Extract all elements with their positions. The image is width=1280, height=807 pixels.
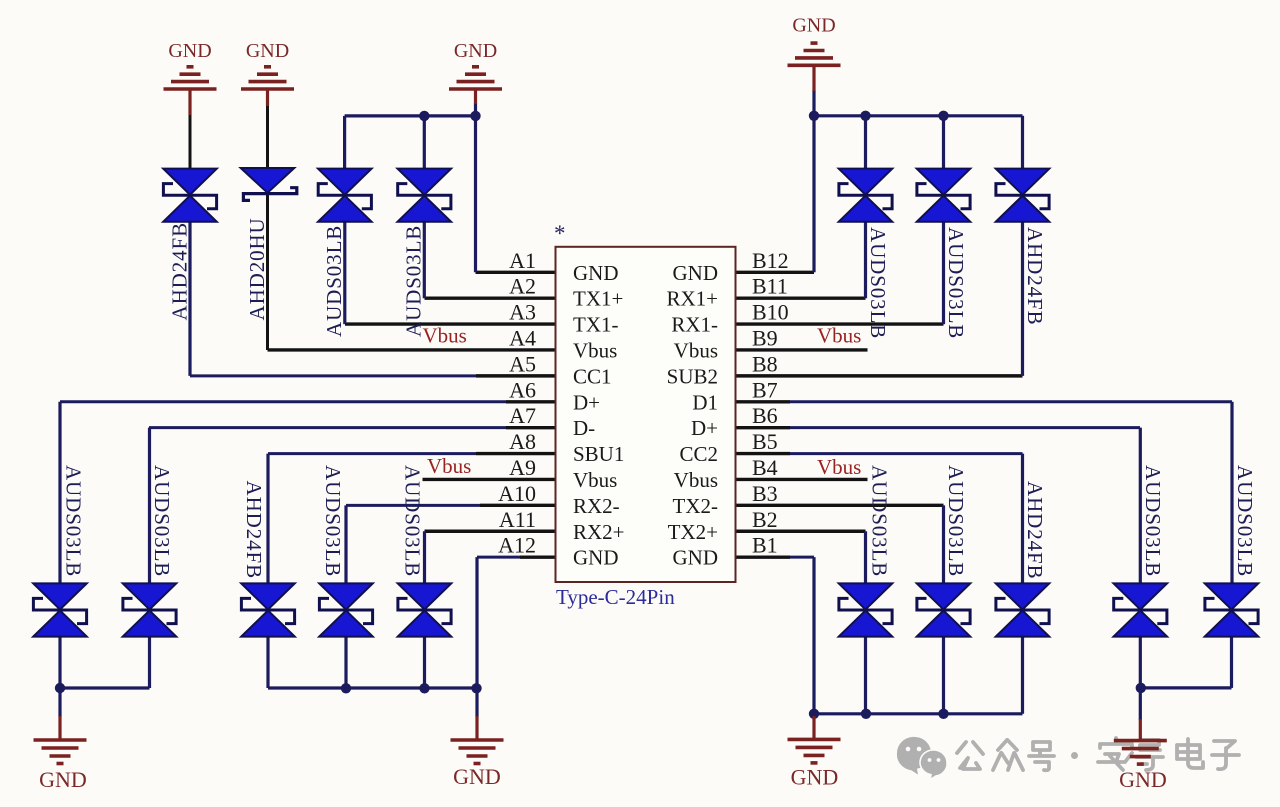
svg-text:B11: B11 bbox=[752, 274, 788, 299]
svg-text:AHD24FB: AHD24FB bbox=[242, 481, 266, 579]
svg-text:GND: GND bbox=[792, 15, 835, 37]
svg-text:A5: A5 bbox=[509, 351, 536, 376]
svg-text:RX1-: RX1- bbox=[671, 313, 718, 337]
svg-text:TX1+: TX1+ bbox=[573, 287, 623, 311]
svg-text:B10: B10 bbox=[752, 300, 789, 325]
svg-text:AUDS03LB: AUDS03LB bbox=[1233, 465, 1257, 577]
svg-text:A11: A11 bbox=[499, 507, 536, 532]
svg-text:AHD24FB: AHD24FB bbox=[1023, 481, 1047, 579]
svg-text:A3: A3 bbox=[509, 300, 536, 325]
svg-text:B6: B6 bbox=[752, 403, 778, 428]
svg-text:Vbus: Vbus bbox=[817, 455, 861, 479]
svg-text:TX2+: TX2+ bbox=[668, 520, 718, 544]
svg-text:AUDS03LB: AUDS03LB bbox=[61, 465, 85, 577]
svg-text:B4: B4 bbox=[752, 455, 778, 480]
svg-text:GND: GND bbox=[454, 40, 497, 62]
svg-text:AHD24FB: AHD24FB bbox=[168, 222, 192, 320]
svg-text:GND: GND bbox=[673, 261, 719, 285]
svg-text:AHD24FB: AHD24FB bbox=[1023, 227, 1047, 325]
svg-text:RX2-: RX2- bbox=[573, 494, 620, 518]
svg-text:AUDS03LB: AUDS03LB bbox=[322, 225, 346, 337]
svg-text:GND: GND bbox=[39, 767, 87, 792]
svg-text:D-: D- bbox=[573, 416, 595, 440]
svg-text:A10: A10 bbox=[498, 481, 536, 506]
svg-text:AUDS03LB: AUDS03LB bbox=[321, 465, 345, 577]
svg-text:A1: A1 bbox=[509, 248, 536, 273]
svg-text:A9: A9 bbox=[509, 455, 536, 480]
svg-text:GND: GND bbox=[168, 40, 211, 62]
svg-text:Vbus: Vbus bbox=[674, 338, 718, 362]
svg-text:AUDS03LB: AUDS03LB bbox=[868, 465, 892, 577]
svg-text:CC2: CC2 bbox=[679, 442, 718, 466]
svg-text:B7: B7 bbox=[752, 377, 778, 402]
svg-text:Vbus: Vbus bbox=[573, 468, 617, 492]
svg-text:GND: GND bbox=[246, 40, 289, 62]
svg-text:B12: B12 bbox=[752, 248, 789, 273]
svg-text:GND: GND bbox=[1119, 767, 1167, 792]
svg-text:AUDS03LB: AUDS03LB bbox=[944, 465, 968, 577]
svg-text:D+: D+ bbox=[691, 416, 718, 440]
svg-text:GND: GND bbox=[673, 546, 719, 570]
svg-text:TX2-: TX2- bbox=[673, 494, 719, 518]
svg-text:RX1+: RX1+ bbox=[666, 287, 718, 311]
svg-text:Vbus: Vbus bbox=[674, 468, 718, 492]
svg-text:A2: A2 bbox=[509, 274, 536, 299]
svg-text:RX2+: RX2+ bbox=[573, 520, 625, 544]
svg-text:AUDS03LB: AUDS03LB bbox=[401, 465, 425, 577]
svg-text:GND: GND bbox=[453, 764, 501, 789]
svg-text:A4: A4 bbox=[509, 325, 536, 350]
svg-text:SBU1: SBU1 bbox=[573, 442, 624, 466]
svg-text:GND: GND bbox=[791, 765, 839, 790]
svg-text:GND: GND bbox=[573, 546, 619, 570]
svg-text:AUDS03LB: AUDS03LB bbox=[402, 225, 426, 337]
svg-text:*: * bbox=[554, 221, 566, 246]
svg-text:B5: B5 bbox=[752, 429, 778, 454]
svg-text:D+: D+ bbox=[573, 390, 600, 414]
svg-text:GND: GND bbox=[573, 261, 619, 285]
svg-text:B9: B9 bbox=[752, 325, 778, 350]
svg-text:AUDS03LB: AUDS03LB bbox=[866, 227, 890, 339]
svg-text:TX1-: TX1- bbox=[573, 313, 619, 337]
svg-text:B2: B2 bbox=[752, 507, 778, 532]
svg-text:D1: D1 bbox=[692, 390, 718, 414]
svg-text:AUDS03LB: AUDS03LB bbox=[150, 465, 174, 577]
svg-text:SUB2: SUB2 bbox=[667, 364, 718, 388]
svg-text:A12: A12 bbox=[498, 533, 536, 558]
svg-text:Type-C-24Pin: Type-C-24Pin bbox=[556, 585, 675, 609]
svg-text:A6: A6 bbox=[509, 377, 536, 402]
svg-text:B1: B1 bbox=[752, 533, 778, 558]
svg-text:AUDS03LB: AUDS03LB bbox=[1141, 465, 1165, 577]
svg-text:Vbus: Vbus bbox=[423, 324, 467, 348]
svg-text:AUDS03LB: AUDS03LB bbox=[944, 227, 968, 339]
svg-text:Vbus: Vbus bbox=[427, 454, 471, 478]
svg-text:AHD20HU: AHD20HU bbox=[245, 217, 269, 320]
svg-text:A7: A7 bbox=[509, 403, 536, 428]
svg-text:Vbus: Vbus bbox=[573, 338, 617, 362]
svg-text:Vbus: Vbus bbox=[817, 324, 861, 348]
svg-text:B3: B3 bbox=[752, 481, 778, 506]
svg-text:B8: B8 bbox=[752, 351, 778, 376]
svg-text:A8: A8 bbox=[509, 429, 536, 454]
svg-text:CC1: CC1 bbox=[573, 364, 612, 388]
